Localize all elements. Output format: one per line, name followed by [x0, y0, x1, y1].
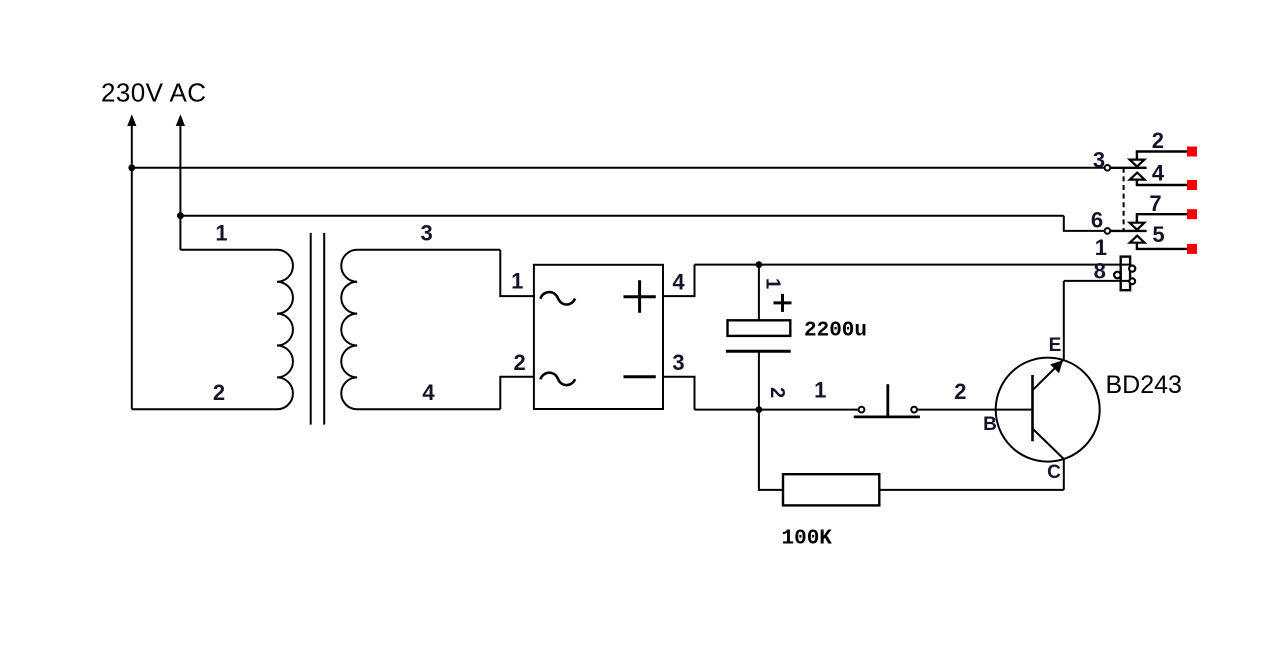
- wire relay pin7: [1137, 214, 1187, 223]
- bridge minus symbol: [624, 375, 656, 378]
- svg-text:1: 1: [762, 278, 784, 289]
- transformer T1 primary winding: [132, 250, 293, 409]
- svg-text:3: 3: [672, 350, 684, 375]
- resistor R1 body: [783, 474, 879, 505]
- svg-text:1: 1: [814, 378, 826, 403]
- svg-text:C: C: [1047, 462, 1061, 483]
- wire relay common1: [1110, 167, 1146, 169]
- svg-text:2: 2: [954, 379, 966, 404]
- wire AC line1 vertical: [131, 123, 133, 409]
- svg-text:1: 1: [1095, 235, 1107, 260]
- node AC line2 arrow: [176, 114, 185, 126]
- pushbutton S1 right terminal: [911, 407, 917, 413]
- wire coil pin8: [1064, 280, 1130, 282]
- bridge AC symbol top: [541, 292, 576, 304]
- relay NO contact 2: [1130, 236, 1145, 243]
- relay NC contact 1: [1130, 160, 1145, 167]
- wire bridge pin3 down: [663, 377, 695, 410]
- terminal pad pin2: [1187, 147, 1197, 157]
- relay contact pin3 terminal: [1105, 165, 1111, 171]
- bridge AC symbol bottom: [541, 373, 576, 385]
- svg-text:1: 1: [511, 268, 523, 293]
- capacitor plus mark: [774, 294, 792, 312]
- svg-text:7: 7: [1149, 191, 1161, 216]
- terminal pad pin7: [1187, 209, 1197, 219]
- wire rail2 to relay pin6: [180, 215, 1063, 217]
- wire rail2 down to pin6: [1064, 216, 1105, 231]
- capacitor C1 positive plate: [728, 320, 791, 336]
- terminal pad pin4: [1187, 180, 1197, 190]
- capacitor C1 bottom lead: [758, 351, 760, 409]
- capacitor C1 negative plate: [726, 350, 791, 353]
- wire relay pin5: [1137, 243, 1187, 249]
- pushbutton S1 stem: [886, 384, 889, 417]
- transformer T1 secondary winding: [341, 250, 500, 409]
- wire relay pin2: [1137, 152, 1187, 160]
- relay coil loop top right: [1129, 266, 1135, 272]
- relay contact pin6 terminal: [1105, 228, 1111, 234]
- wire ground rail to pushbutton: [695, 409, 859, 411]
- wire emitter up to coil pin8: [1063, 281, 1065, 360]
- svg-text:1: 1: [215, 220, 227, 245]
- wire resistor to junction: [759, 410, 783, 490]
- svg-text:3: 3: [420, 220, 432, 245]
- svg-text:2: 2: [1152, 128, 1164, 153]
- wire bridge pin4 to top rail: [663, 265, 695, 297]
- wire AC line2 vertical: [179, 123, 181, 250]
- terminal pad pin5: [1187, 244, 1197, 254]
- svg-text:2200u: 2200u: [804, 320, 867, 343]
- svg-text:3: 3: [1093, 148, 1105, 173]
- wire relay common2: [1110, 230, 1146, 232]
- transistor Q1 emitter line: [1033, 359, 1064, 390]
- wire rail1 to relay pin3: [132, 167, 1105, 169]
- node junction rail2: [177, 212, 184, 219]
- relay mechanical link dashed: [1123, 168, 1125, 231]
- transistor Q1 base bar: [1031, 375, 1034, 441]
- transformer core line left: [310, 233, 312, 425]
- svg-text:230V AC: 230V AC: [101, 78, 206, 108]
- transistor Q1 emitter arrow: [1050, 360, 1063, 373]
- transformer core line right: [323, 233, 325, 425]
- transistor Q1 collector line: [1033, 429, 1064, 459]
- svg-text:4: 4: [1152, 160, 1165, 185]
- svg-text:2: 2: [766, 387, 788, 398]
- svg-text:4: 4: [422, 380, 435, 405]
- svg-text:2: 2: [513, 350, 525, 375]
- bridge plus symbol: [624, 280, 656, 312]
- wire pushbutton to base: [917, 409, 1033, 411]
- bridge rectifier B1 body: [534, 265, 663, 409]
- node AC line1 arrow: [127, 114, 136, 126]
- wire top rail to relay coil pin1: [695, 264, 1130, 266]
- relay coil loop left: [1114, 272, 1121, 279]
- capacitor C1 top lead: [758, 265, 760, 321]
- node junction capacitor minus: [756, 406, 763, 413]
- node junction capacitor plus: [756, 261, 763, 268]
- svg-text:BD243: BD243: [1106, 371, 1182, 399]
- relay NC contact 2: [1130, 223, 1145, 230]
- node junction rail1: [128, 164, 135, 171]
- transistor Q1 circle: [996, 358, 1100, 462]
- pushbutton S1 left terminal: [859, 407, 865, 413]
- wire secondary pin4 to bridge pin2: [500, 377, 534, 410]
- svg-text:4: 4: [672, 269, 685, 294]
- svg-text:2: 2: [213, 380, 225, 405]
- relay coil K1 core: [1121, 257, 1130, 291]
- wire collector down: [1063, 459, 1065, 490]
- wire collector to resistor: [879, 489, 1064, 491]
- relay NO contact 1: [1130, 173, 1145, 180]
- wire secondary pin3 to bridge pin1: [500, 250, 534, 296]
- svg-text:E: E: [1049, 335, 1062, 356]
- pushbutton S1 bar: [854, 415, 920, 418]
- relay coil loop bottom right: [1129, 278, 1135, 284]
- svg-text:100K: 100K: [782, 528, 833, 551]
- svg-text:6: 6: [1091, 207, 1103, 232]
- svg-text:B: B: [983, 414, 997, 435]
- svg-text:5: 5: [1152, 222, 1164, 247]
- wire relay pin4: [1137, 180, 1187, 185]
